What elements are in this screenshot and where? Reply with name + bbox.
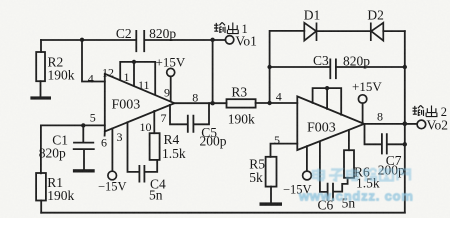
node C3 junction right — [403, 65, 407, 69]
wire C7 left — [365, 124, 382, 144]
wire C6 right lead jog — [334, 178, 348, 192]
wire D2 to rail — [383, 30, 405, 32]
wire pin9 riser stage2 — [362, 103, 364, 123]
resistor R5 — [266, 157, 277, 187]
wire C7 right — [387, 143, 404, 145]
node Vo1 junction — [210, 38, 214, 42]
terminal -15V stage1 — [108, 171, 117, 180]
wire pin5 stage2 — [271, 144, 298, 157]
resistor R3 — [227, 99, 256, 107]
node pin4 junction — [80, 38, 84, 42]
capacitor C3 — [330, 59, 336, 78]
ground — [73, 169, 95, 172]
wire top feedback bus stage1 — [41, 39, 225, 41]
watermark line1 电子电路图网 — [313, 169, 410, 181]
terminal +15V stage2 — [358, 95, 366, 103]
capacitor C4 — [139, 166, 144, 182]
label output1 Chinese 输出 1 — [214, 22, 238, 33]
wire bus op-amp2 — [313, 88, 342, 115]
node output1 junction — [210, 101, 214, 105]
wire pin7 to C5 — [170, 105, 187, 124]
ground — [260, 202, 283, 205]
wire bottom feedback — [41, 212, 405, 214]
terminal +15V stage1 — [167, 68, 175, 76]
node pin5 junction — [81, 123, 85, 127]
wire pin9 riser — [170, 76, 172, 101]
diode D1 — [304, 23, 316, 41]
node C3 junction left — [267, 65, 271, 69]
wire pin10 — [153, 111, 155, 133]
terminal -15V stage2 — [303, 171, 312, 180]
wire bus pins 12-1-11 — [120, 62, 155, 95]
wire D1 to D2 — [317, 30, 371, 32]
capacitor C1 — [82, 125, 84, 141]
wire pin5 stage1 — [41, 124, 105, 126]
wire C5 right lead — [194, 103, 209, 124]
resistor R4 — [150, 133, 160, 160]
op-amp U1 F003 triangle — [105, 74, 175, 136]
diode D2 — [371, 23, 384, 41]
wire pin4 riser — [82, 40, 105, 82]
resistor R1 — [40, 125, 42, 173]
wire R6 top lead — [348, 130, 350, 150]
wire right rail — [404, 31, 406, 213]
capacitor C7 — [382, 134, 387, 153]
capacitor C2 — [136, 31, 144, 51]
node bus2 junction — [325, 86, 329, 90]
capacitor C5 — [188, 116, 194, 132]
wire Vo2 tap — [405, 123, 417, 125]
wire node A riser — [270, 31, 305, 103]
label output2 Chinese 输出 2 — [413, 105, 437, 116]
resistor R6 — [344, 150, 354, 178]
wire C4 left lead — [128, 122, 139, 172]
wire pin3 drop stage2 — [306, 146, 308, 171]
node pin1 junction — [132, 60, 136, 64]
wire C4 right lead — [145, 160, 157, 172]
terminal Vo2 — [417, 120, 426, 129]
ground — [30, 96, 51, 99]
node C7 junction — [403, 142, 407, 146]
wire output stage2 — [364, 123, 405, 125]
node A junction — [267, 101, 271, 105]
wire C3 right — [337, 66, 405, 68]
wire Vo1 riser — [212, 40, 214, 103]
node output2 junction — [403, 121, 408, 126]
capacitor C6 — [328, 184, 333, 200]
wire R3 to op-amp2 — [256, 102, 298, 104]
wire output stage1 to R3 — [174, 102, 226, 104]
resistor R2 — [40, 40, 42, 52]
wire pin3 drop stage1 — [111, 129, 113, 172]
wire C6 left lead — [320, 141, 327, 192]
wire C3 left — [270, 66, 330, 68]
op-amp U2 F003 triangle — [297, 96, 364, 150]
terminal Vo1 — [225, 36, 233, 44]
